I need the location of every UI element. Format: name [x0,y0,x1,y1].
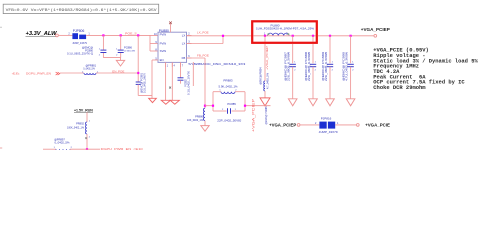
svg-text:22U_0805_6.3V8W: 22U_0805_6.3V8W [308,51,311,81]
svg-text:22P_0402_50V8J: 22P_0402_50V8J [217,118,242,122]
svg-text:0.1U_0402_16V7K: 0.1U_0402_16V7K [187,71,190,95]
svg-text:PVIN: PVIN [160,32,167,36]
svg-text:22U_0805_6.3V8W: 22U_0805_6.3V8W [124,50,136,52]
svg-text:22U_0805_6.3V8W: 22U_0805_6.3V8W [288,51,291,81]
svg-text:PR892: PR892 [76,121,84,125]
svg-text:+VGA_PCIEP: +VGA_PCIEP [361,27,390,32]
svg-text:SY8286ADC_DSC_DFN10_3X3: SY8286ADC_DSC_DFN10_3X3 [188,62,245,66]
svg-text:PC885: PC885 [227,102,236,106]
svg-text:PJP806: PJP806 [73,29,85,33]
svg-text:0.1U_0402_16V7K: 0.1U_0402_16V7K [144,73,147,93]
svg-text:10K_0402_1%: 10K_0402_1% [187,118,204,122]
svg-text:EN_POE: EN_POE [112,69,124,73]
svg-text:4.7U_0402_6.3V8W: 4.7U_0402_6.3V8W [346,51,349,81]
svg-text:Choke DCR 29mohm: Choke DCR 29mohm [373,84,426,91]
svg-text:PJP816: PJP816 [321,117,332,121]
svg-text:22U_0805_6.3V8W: 22U_0805_6.3V8W [325,51,328,81]
svg-text:FB_POE: FB_POE [197,54,209,58]
svg-text:@EMC@ PR884: @EMC@ PR884 [260,67,263,85]
svg-text:LX: LX [182,34,186,38]
svg-text:EN: EN [160,58,164,62]
svg-text:JUMP_43X79: JUMP_43X79 [72,41,87,45]
svg-text:VFB=0.6V Vo=VFB*(1+R9683/R9684: VFB=0.6V Vo=VFB*(1+R9683/R9684)=0.6*(1+5… [6,8,158,13]
svg-text:JUMP_43X79: JUMP_43X79 [319,130,338,134]
svg-text:+1.5V_RUN: +1.5V_RUN [74,108,93,112]
svg-text:SVIN: SVIN [160,49,167,53]
svg-text:100K_0402_1%: 100K_0402_1% [67,126,85,130]
svg-text:@EMC@ PR885: @EMC@ PR885 [265,106,268,125]
svg-text:4.7_0402_5%: 4.7_0402_5% [266,72,269,89]
svg-text:+VGA_PCIE: +VGA_PCIE [365,122,390,127]
svg-text:5.9K_0402_1%: 5.9K_0402_1% [219,84,239,88]
svg-text:+82,83c: +82,83c [12,71,20,75]
svg-text:+3.3V_ALW: +3.3V_ALW [26,31,57,37]
svg-text:0_0402_5%: 0_0402_5% [55,141,71,145]
svg-text:+VGA_PCIEP: +VGA_PCIEP [265,46,269,70]
svg-text:0.1U_0603_25V7K-Q: 0.1U_0603_25V7K-Q [67,51,93,55]
svg-text:0_0402_5%: 0_0402_5% [83,66,95,70]
svg-text:PVIN: PVIN [160,42,167,46]
svg-text:PR883: PR883 [223,79,233,83]
svg-text:FB: FB [182,56,186,60]
svg-text:+VGA_PCIEP: +VGA_PCIEP [252,99,256,132]
svg-text:PR886: PR886 [195,115,203,119]
svg-text:1UH_FDSD0420-H_1R0M-P5T_4.5A_2: 1UH_FDSD0420-H_1R0M-P5T_4.5A_29% [256,27,315,31]
svg-text:POE_S: POE_S [125,31,137,35]
svg-text:LX: LX [182,42,186,46]
svg-text:+VGA_PCIEP: +VGA_PCIEP [269,122,296,127]
svg-text:LX_POE: LX_POE [197,31,209,35]
svg-text:DGPU_PWR_EN <E10: DGPU_PWR_EN <E10 [101,147,143,150]
svg-text:DGPU_PWR_EN: DGPU_PWR_EN [26,71,51,75]
svg-text:PC886: PC886 [124,45,132,49]
